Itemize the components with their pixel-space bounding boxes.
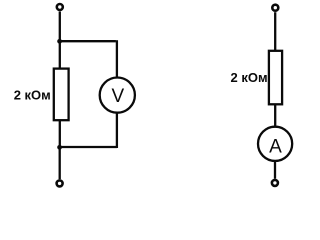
svg-text:A: A — [269, 136, 282, 157]
node: top junction of parallel branch — [57, 39, 62, 44]
wire: top-right terminal down to resistor R2 top lead — [274, 12, 276, 50]
resistor R1 (2 kOhm) — [54, 69, 69, 121]
wire: ammeter bottom down to bottom-right terminal — [274, 161, 276, 179]
wire: top node down to resistor R1 top lead — [59, 41, 61, 68]
ammeter PA1 (body) — [258, 127, 292, 161]
wire: bottom branch corner to bottom node (horizontal) — [60, 146, 117, 148]
svg-text:2 кОм: 2 кОм — [231, 70, 268, 85]
wire: branch corner down to voltmeter top — [116, 40, 118, 78]
wire: resistor R2 bottom lead down to ammeter top — [274, 105, 276, 128]
node: bottom junction of parallel branch — [57, 145, 62, 150]
wire: top-left terminal down to top node — [59, 12, 61, 42]
terminal: top-right binding post — [272, 5, 278, 11]
svg-text:2 кОм: 2 кОм — [14, 88, 51, 103]
wire: voltmeter bottom down to bottom branch corner — [116, 113, 118, 148]
voltmeter PV1 (body) — [100, 78, 135, 113]
svg-text:V: V — [112, 86, 125, 107]
terminal: bottom-right binding post — [272, 180, 278, 186]
wire: resistor R1 bottom lead down to bottom node — [59, 120, 61, 148]
wire: bottom node down to bottom-left terminal — [59, 147, 61, 179]
terminal: top-left binding post — [57, 4, 63, 10]
terminal: bottom-left binding post — [57, 180, 63, 186]
resistor R2 (2 kOhm) — [269, 51, 282, 105]
wire: top node to voltmeter branch corner (horizontal) — [60, 40, 116, 42]
